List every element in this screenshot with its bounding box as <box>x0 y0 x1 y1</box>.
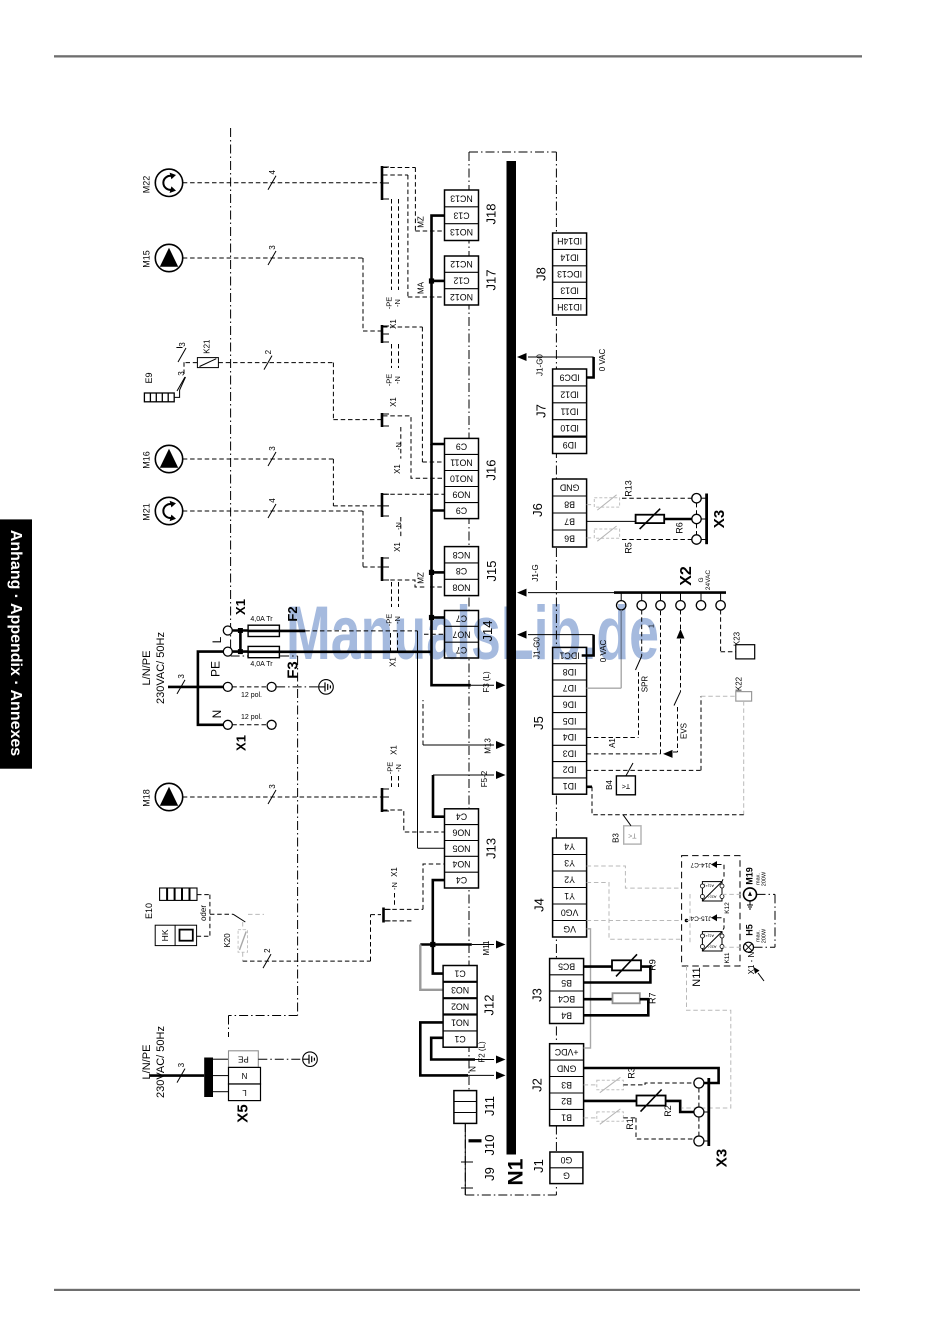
svg-text:K20: K20 <box>223 933 232 948</box>
wire E10/HK oder bus <box>197 894 210 896</box>
svg-text:G: G <box>698 577 705 582</box>
svg-text:A1: A1 <box>608 738 617 748</box>
svg-text:X2: X2 <box>678 566 695 586</box>
svg-text:Anhang · Appendix · Annexes: Anhang · Appendix · Annexes <box>7 530 24 756</box>
svg-text:N: N <box>469 1066 478 1072</box>
svg-text:J4: J4 <box>532 898 547 912</box>
wire L to fuses <box>232 629 248 632</box>
svg-text:2: 2 <box>263 948 272 953</box>
wire/tap J1-G0 (top) to IDC9 <box>517 353 527 361</box>
wire K21 N to X1 <box>400 427 402 459</box>
node X1 bracket for M21 <box>381 557 384 581</box>
wire E9 riser <box>174 390 179 397</box>
wire Y2 to N11 <box>587 883 682 940</box>
svg-text:0 VAC: 0 VAC <box>598 349 607 372</box>
svg-text:N11: N11 <box>691 967 703 986</box>
wire Y3 to N11 <box>587 866 682 888</box>
svg-text:E9: E9 <box>144 372 154 383</box>
connector J7 <box>534 369 587 454</box>
wire/tap F5-2 <box>433 774 494 776</box>
svg-text:ID9: ID9 <box>563 440 577 450</box>
svg-text:4,0A Tr: 4,0A Tr <box>250 661 273 668</box>
motor M19 pump <box>722 893 744 895</box>
svg-text:R6: R6 <box>675 522 685 534</box>
wire X1-N continuation <box>774 894 776 947</box>
svg-text:NO4: NO4 <box>452 859 470 869</box>
svg-text:PE: PE <box>238 1055 249 1064</box>
wire M16 N to X1 <box>400 517 402 538</box>
SSR K11 <box>700 932 731 964</box>
svg-text:R1: R1 <box>625 1118 635 1130</box>
wire L/N loop <box>198 652 223 725</box>
svg-text:12 pol.: 12 pol. <box>241 714 262 721</box>
svg-text:X1: X1 <box>393 464 402 474</box>
node X1 -N bracket (K20) <box>382 908 385 923</box>
wire M18 to NO6 <box>383 810 445 832</box>
wire MZ to NO13 <box>383 167 415 169</box>
svg-text:ManualsLib.de: ManualsLib.de <box>286 591 659 676</box>
node X1 bracket for M16 <box>381 493 384 517</box>
wire/tap J1-G0 (lower) to IDC1 <box>517 631 527 639</box>
wire fuse F2 output <box>279 630 305 633</box>
svg-text:J7: J7 <box>534 404 549 418</box>
module N11 <box>682 856 740 966</box>
svg-text:2: 2 <box>264 349 273 354</box>
svg-text:ID12: ID12 <box>560 389 579 399</box>
wire/tap J1-G and terminal X2 <box>517 589 527 597</box>
svg-text:X5: X5 <box>235 1104 252 1122</box>
svg-text:3: 3 <box>268 446 277 451</box>
svg-text:VG0: VG0 <box>561 907 579 917</box>
svg-text:L: L <box>242 1088 247 1097</box>
node X1 bracket for K21/E9 <box>381 413 384 427</box>
svg-text:MA: MA <box>417 281 426 294</box>
svg-text:J14-C7: J14-C7 <box>690 861 711 868</box>
earth symbol PE <box>276 686 319 688</box>
svg-text:NC12: NC12 <box>450 259 473 269</box>
svg-text:ID4: ID4 <box>563 732 577 742</box>
svg-text:NC13: NC13 <box>450 193 473 203</box>
connector J11 <box>454 1091 497 1124</box>
svg-text:NO12: NO12 <box>450 292 473 302</box>
wire NO7 stub <box>424 633 445 635</box>
connector J2 <box>530 1044 584 1126</box>
wire M22 PE/N to X1 <box>391 199 393 290</box>
svg-text:N1: N1 <box>505 1158 528 1185</box>
svg-text:B3: B3 <box>561 1080 572 1090</box>
svg-text:K12: K12 <box>724 902 731 914</box>
wire A1 to ID3 <box>587 753 661 755</box>
svg-text:M18: M18 <box>142 789 152 807</box>
svg-text:+VDC: +VDC <box>554 1047 578 1057</box>
svg-text:H5: H5 <box>745 924 755 936</box>
svg-text:C4: C4 <box>456 875 467 885</box>
svg-text:C13: C13 <box>453 210 469 220</box>
relay coil K23 <box>720 610 722 652</box>
svg-text:A1(+): A1(+) <box>703 934 714 939</box>
svg-text:J9: J9 <box>482 1167 497 1181</box>
wire ID2 / relay K22 <box>587 769 701 771</box>
svg-text:R5: R5 <box>623 542 633 554</box>
wire boundary dash-dot left building line <box>230 128 232 656</box>
svg-text:K21: K21 <box>202 339 211 354</box>
sensor R6 <box>587 520 636 522</box>
svg-text:X1: X1 <box>233 599 248 615</box>
svg-text:Y1: Y1 <box>564 891 575 901</box>
wire M22 to X1 bracket <box>183 182 381 184</box>
svg-text:J3: J3 <box>530 988 545 1002</box>
connector J16 <box>445 438 499 518</box>
svg-text:A2(-): A2(-) <box>707 895 717 900</box>
svg-text:K23: K23 <box>733 631 742 646</box>
wire/tap F3 (L) <box>471 684 494 686</box>
svg-text:M19: M19 <box>745 867 755 885</box>
wire/tap M11 <box>420 943 472 946</box>
svg-text:X3: X3 <box>714 1149 731 1167</box>
sensor R2 <box>584 1100 637 1103</box>
wire K21 to NO10 <box>218 362 333 364</box>
svg-text:-N: -N <box>393 299 402 307</box>
svg-text:oder: oder <box>199 905 208 921</box>
svg-text:B8: B8 <box>564 500 575 510</box>
svg-text:J15-C4: J15-C4 <box>690 914 711 921</box>
wire GND to X3 <box>584 1068 719 1083</box>
wire fuse F3 output to relay commons <box>279 650 431 653</box>
svg-text:M21: M21 <box>142 503 152 521</box>
svg-text:-N: -N <box>393 376 402 384</box>
svg-text:NO5: NO5 <box>452 843 470 853</box>
svg-text:ID11: ID11 <box>561 406 579 416</box>
wire ID7 to X2-1 <box>587 687 622 689</box>
svg-text:MZ: MZ <box>417 216 426 228</box>
svg-text:J13: J13 <box>483 838 498 859</box>
switch EVS <box>680 610 682 692</box>
svg-text:IDC9: IDC9 <box>559 372 579 382</box>
sensor R3 <box>584 1084 597 1086</box>
svg-text:C12: C12 <box>453 276 469 286</box>
wire F3 L distribution (thick C-rail lower) <box>432 511 471 686</box>
svg-text:F2 (L): F2 (L) <box>478 1041 487 1063</box>
sensor R9 <box>584 965 612 968</box>
node X1 bracket for M22 <box>381 166 384 200</box>
svg-text:X1: X1 <box>390 867 399 877</box>
svg-text:3: 3 <box>177 371 186 376</box>
svg-text:J11: J11 <box>482 1096 497 1116</box>
wire M15 to X1 bracket <box>183 257 363 259</box>
svg-text:NO2: NO2 <box>451 1001 469 1011</box>
svg-text:X1: X1 <box>390 745 399 755</box>
connector X5 <box>229 1051 259 1068</box>
connector J9 <box>461 1161 473 1163</box>
svg-text:R13: R13 <box>623 480 633 497</box>
svg-text:C9: C9 <box>456 506 467 516</box>
svg-text:X1: X1 <box>234 735 249 751</box>
svg-text:J10: J10 <box>482 1135 497 1156</box>
lamp H5 <box>722 946 744 948</box>
svg-text:G0: G0 <box>560 1155 572 1165</box>
wire/tap M13 <box>423 744 494 746</box>
sensor R13 <box>587 504 595 506</box>
svg-text:12 pol.: 12 pol. <box>241 692 262 699</box>
connector J10 <box>464 1123 466 1195</box>
wire M15 to NO11 <box>383 326 422 328</box>
wire M18 to X1 bracket <box>183 796 381 798</box>
svg-text:BC4: BC4 <box>558 994 575 1004</box>
bottom rule <box>54 1289 860 1291</box>
node X1 bracket for M15 <box>381 325 384 343</box>
sensor R7 <box>584 998 613 1001</box>
connector J12 <box>443 966 496 1048</box>
svg-text:N: N <box>241 1071 247 1080</box>
svg-text:B3: B3 <box>611 833 620 843</box>
terminal X3 (bottom) <box>694 1078 704 1088</box>
svg-text:T<: T< <box>628 832 636 839</box>
top rule <box>54 55 862 57</box>
connector J13 <box>445 809 499 888</box>
svg-text:NO11: NO11 <box>450 457 472 467</box>
wire M16 to X1 bracket <box>183 458 334 460</box>
svg-text:4: 4 <box>268 170 277 175</box>
wire C4-C1 thick rail <box>433 880 445 974</box>
svg-text:ID2: ID2 <box>563 765 577 775</box>
svg-text:B4: B4 <box>605 780 614 790</box>
svg-text:M16: M16 <box>142 451 152 469</box>
svg-text:-N: -N <box>394 522 403 530</box>
wire M15 PE/N to X1 <box>391 344 393 368</box>
svg-text:J1-G0: J1-G0 <box>536 354 545 376</box>
svg-text:X1: X1 <box>393 542 402 552</box>
wire mains feed <box>168 686 223 689</box>
wire to NO4 <box>423 864 445 909</box>
svg-text:Y2: Y2 <box>564 874 575 884</box>
node X1 bracket for M18 <box>381 788 384 812</box>
connector J1 <box>531 1152 583 1184</box>
svg-text:NC8: NC8 <box>453 550 471 560</box>
wire M16 to NO9 <box>383 493 445 495</box>
wire M21 PE/N to X1 <box>391 582 393 607</box>
svg-text:SPR: SPR <box>641 676 650 693</box>
svg-text:PE: PE <box>209 661 223 677</box>
switch SPR to ID4 <box>641 610 643 656</box>
svg-text:B1: B1 <box>561 1113 572 1123</box>
svg-text:230VAC/ 50Hz: 230VAC/ 50Hz <box>155 632 167 704</box>
svg-text:J15: J15 <box>484 561 499 582</box>
svg-text:GND: GND <box>557 1063 577 1073</box>
svg-text:NO3: NO3 <box>451 985 469 995</box>
wire NO3 grey feed <box>420 945 443 990</box>
wire controller cabinet dash-dot frame <box>468 152 470 1090</box>
svg-text:EVS: EVS <box>680 723 689 739</box>
wire VG0 to N11 <box>587 920 687 922</box>
svg-text:R9: R9 <box>647 959 657 971</box>
sensor R1 <box>584 1117 597 1119</box>
svg-text:ID1: ID1 <box>563 781 577 791</box>
wire VG to +VDC <box>584 929 591 1048</box>
svg-text:B7: B7 <box>564 517 575 527</box>
wire M21 to X1 bracket <box>183 510 363 512</box>
svg-text:J16: J16 <box>484 460 499 481</box>
svg-text:C4: C4 <box>456 812 467 822</box>
svg-text:M13: M13 <box>484 738 493 754</box>
svg-text:J12: J12 <box>482 995 497 1016</box>
svg-text:R2: R2 <box>663 1105 673 1117</box>
svg-text:F5-2: F5-2 <box>480 770 489 787</box>
svg-text:B6: B6 <box>564 534 575 544</box>
svg-text:J1-G: J1-G <box>531 564 540 581</box>
relay contact K21 <box>186 362 198 364</box>
svg-text:ID13H: ID13H <box>557 302 582 312</box>
svg-text:BC5: BC5 <box>558 962 575 972</box>
svg-text:3: 3 <box>177 1062 186 1067</box>
wire x417 rail <box>417 631 419 848</box>
node X2 terminal circles <box>620 593 622 601</box>
SSR K12 <box>700 882 731 914</box>
connector J17 <box>445 256 499 305</box>
svg-text:M15: M15 <box>142 250 152 268</box>
wire M18 PE/N to X1 <box>391 776 393 787</box>
wire F3 L distribution (thick C-rail upper) <box>432 216 445 444</box>
connector J4 <box>532 838 587 937</box>
svg-text:C9: C9 <box>456 441 467 451</box>
svg-text:ID7: ID7 <box>563 683 577 693</box>
svg-text:A1(+): A1(+) <box>703 884 714 889</box>
svg-text:NO13: NO13 <box>450 227 473 237</box>
svg-text:C1: C1 <box>454 969 465 979</box>
svg-text:ID3: ID3 <box>563 748 577 758</box>
svg-text:VG: VG <box>563 924 576 934</box>
wire NO1 / N-tap <box>420 1022 468 1075</box>
sensor R5 <box>587 537 595 539</box>
controller board N1 bar <box>507 161 517 1155</box>
sidebar tab <box>0 519 32 768</box>
svg-text:G: G <box>563 1171 570 1181</box>
svg-text:3: 3 <box>178 342 187 347</box>
svg-text:M11: M11 <box>482 940 491 956</box>
wire K20 output <box>243 960 371 962</box>
terminal X3 (top) <box>692 494 701 503</box>
svg-text:X1: X1 <box>389 397 398 407</box>
svg-text:-N: -N <box>394 442 403 450</box>
svg-text:B5: B5 <box>561 978 572 988</box>
fuse F3 4,0A Tr <box>248 646 279 657</box>
svg-text:C1: C1 <box>454 1034 465 1044</box>
wire MA to NO12 <box>383 174 408 176</box>
svg-text:Y4: Y4 <box>564 841 575 851</box>
svg-text:J1: J1 <box>531 1159 546 1173</box>
svg-text:3: 3 <box>268 784 277 789</box>
connector J15 <box>445 547 500 596</box>
connector J14 <box>445 611 496 659</box>
svg-text:-N: -N <box>390 882 399 890</box>
svg-text:ID13: ID13 <box>560 285 579 295</box>
svg-text:T<: T< <box>622 782 630 789</box>
wire/tap F2 (L) <box>431 1038 475 1060</box>
svg-text:C8: C8 <box>456 566 467 576</box>
wire NO5 feed <box>418 847 445 849</box>
svg-text:J17: J17 <box>484 270 499 291</box>
svg-text:J6: J6 <box>530 503 545 517</box>
svg-text:B2: B2 <box>561 1096 572 1106</box>
svg-text:200W: 200W <box>762 928 768 943</box>
svg-text:NO10: NO10 <box>450 474 473 484</box>
svg-text:NO6: NO6 <box>452 828 470 838</box>
svg-text:L: L <box>210 636 224 643</box>
sensor B4 <box>587 785 592 788</box>
svg-text:N: N <box>210 710 224 719</box>
connector J6 <box>530 479 587 547</box>
svg-text:X3: X3 <box>711 510 728 528</box>
earth symbol X5 PE <box>258 1058 302 1060</box>
svg-text:E10: E10 <box>144 903 154 919</box>
svg-text:A2(-): A2(-) <box>707 945 717 950</box>
svg-text:HK: HK <box>160 929 170 941</box>
connector J5 <box>531 647 587 794</box>
svg-text:J8: J8 <box>534 267 549 281</box>
svg-text:24VAC: 24VAC <box>705 570 712 590</box>
svg-text:230VAC/ 50Hz: 230VAC/ 50Hz <box>155 1026 167 1098</box>
svg-text:J5: J5 <box>531 716 546 730</box>
connector J8 <box>534 233 587 315</box>
svg-text:J18: J18 <box>484 204 499 225</box>
svg-text:Y3: Y3 <box>564 858 575 868</box>
svg-text:M22: M22 <box>142 176 152 194</box>
svg-text:200W: 200W <box>762 871 768 886</box>
wire M21 MZ to NO8 <box>383 580 427 587</box>
svg-text:K11: K11 <box>724 952 731 963</box>
svg-text:4,0A Tr: 4,0A Tr <box>250 616 273 623</box>
svg-text:K22: K22 <box>735 676 744 691</box>
svg-text:NO1: NO1 <box>451 1018 469 1028</box>
svg-text:4: 4 <box>268 498 277 503</box>
svg-text:ID14: ID14 <box>560 253 579 263</box>
svg-text:B4: B4 <box>561 1010 572 1020</box>
controller HK <box>155 925 196 945</box>
connector J18 <box>445 190 499 241</box>
svg-text:3: 3 <box>268 245 277 250</box>
svg-text:-N: -N <box>394 764 403 772</box>
svg-text:L/N/PE: L/N/PE <box>141 651 153 686</box>
svg-text:3: 3 <box>177 674 186 679</box>
svg-text:ID14H: ID14H <box>557 236 582 246</box>
wire N11 to X3 <box>682 966 731 1108</box>
svg-text:R3: R3 <box>626 1067 636 1079</box>
svg-text:IDC13: IDC13 <box>557 269 582 279</box>
connector J3 <box>530 959 584 1024</box>
svg-text:ID10: ID10 <box>560 423 579 433</box>
svg-text:L/N/PE: L/N/PE <box>141 1045 153 1080</box>
svg-text:NO9: NO9 <box>452 490 470 500</box>
svg-text:MZ: MZ <box>417 572 426 584</box>
svg-text:J2: J2 <box>530 1078 545 1092</box>
svg-text:ID6: ID6 <box>563 699 577 709</box>
svg-text:GND: GND <box>560 483 580 493</box>
svg-text:ID5: ID5 <box>563 716 577 726</box>
